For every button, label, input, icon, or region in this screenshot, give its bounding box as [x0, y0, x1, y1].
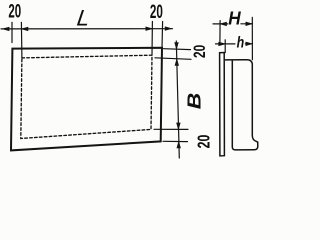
side right extension line [251, 17, 253, 59]
arrow h left outward [219, 42, 226, 46]
svg-text:20: 20 [8, 0, 21, 22]
top dimension line [1, 28, 173, 30]
right extension line bottom-outer [163, 140, 188, 142]
arrow bottom-20 outward (pointing up) [177, 142, 181, 149]
arrow left-20 outward [3, 27, 10, 31]
right extension line top-outer [164, 48, 191, 51]
h dimension line left segment [216, 43, 236, 45]
side view board bar [220, 53, 225, 156]
svg-text:h: h [237, 34, 245, 51]
arrow B bottom [177, 123, 181, 129]
h dimension line right segment [245, 43, 252, 45]
arrow L right [146, 27, 153, 31]
H dimension line right segment [241, 23, 252, 25]
front view outer rectangle [11, 48, 162, 151]
top extension line right-inner [151, 22, 153, 56]
svg-text:H: H [228, 9, 241, 29]
top extension line right-outer [161, 22, 164, 48]
arrow B top [175, 59, 179, 66]
svg-text:20: 20 [150, 2, 163, 23]
top extension line left-outer [11, 22, 13, 42]
H dimension line left segment [213, 23, 228, 25]
top extension line left-inner [20, 22, 23, 58]
svg-text:B: B [185, 93, 205, 110]
arrow top-20 outward (pointing down) [175, 43, 179, 50]
arrow H left [220, 22, 227, 26]
right dimension line [176, 41, 179, 158]
side view frame profile [225, 60, 257, 150]
arrow L left [22, 27, 29, 31]
svg-text:20: 20 [190, 45, 209, 58]
right extension line bottom-inner [154, 128, 188, 130]
arrow H right [246, 22, 253, 26]
right extension line top-inner [155, 58, 191, 60]
front view dashed inner rectangle [21, 55, 152, 138]
svg-text:20: 20 [193, 134, 213, 148]
H extension line left [219, 21, 221, 44]
arrow right-20 outward [165, 27, 172, 31]
arrow h right [246, 42, 253, 46]
h extension line [224, 40, 226, 53]
